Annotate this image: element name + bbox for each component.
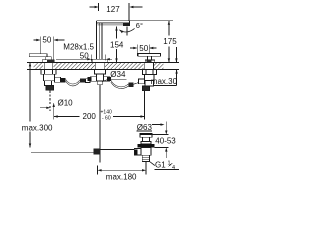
svg-text:Ø34: Ø34: [110, 70, 126, 79]
svg-text:G1: G1: [155, 161, 166, 170]
svg-text:4: 4: [172, 165, 175, 171]
svg-text:1: 1: [168, 161, 171, 167]
svg-text:6°: 6°: [136, 21, 143, 30]
svg-text:50: 50: [42, 36, 51, 45]
svg-text:max.180: max.180: [106, 172, 137, 181]
svg-text:Ø10: Ø10: [58, 98, 74, 107]
svg-text:200: 200: [83, 112, 97, 121]
svg-text:40-53: 40-53: [155, 136, 176, 145]
svg-text:M28x1.5: M28x1.5: [63, 43, 94, 52]
svg-text:154: 154: [110, 41, 124, 50]
svg-text:max.30: max.30: [151, 77, 178, 86]
svg-text:- 60: - 60: [102, 115, 111, 121]
svg-text:175: 175: [163, 37, 177, 46]
svg-text:50: 50: [139, 44, 148, 53]
svg-text:Ø63: Ø63: [137, 123, 153, 132]
svg-text:max.300: max.300: [22, 123, 53, 132]
svg-text:127: 127: [106, 5, 120, 14]
svg-text:50: 50: [80, 51, 89, 60]
